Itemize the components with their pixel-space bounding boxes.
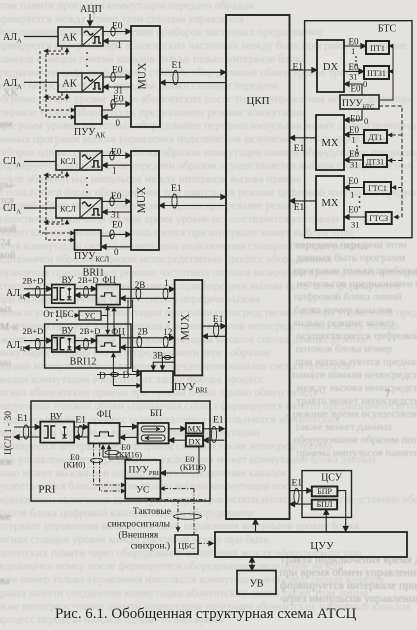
node СЛ_А 2 <box>3 203 21 216</box>
wire MUX2 to КСЛ1 <box>102 164 131 166</box>
wire ФЦ2 to MUX3 2В <box>120 336 175 347</box>
svg-text:ПТ1: ПТ1 <box>370 44 385 53</box>
tone generator ГТС3 <box>366 212 392 224</box>
svg-text:программ только приборов: программ только приборов <box>294 265 417 277</box>
svg-text:КСЛ: КСЛ <box>60 205 76 214</box>
svg-text:0: 0 <box>364 116 368 126</box>
svg-text:осуществляется цифровой приема: осуществляется цифровой приема <box>296 330 417 342</box>
svg-text:От ЦБС: От ЦБС <box>43 309 73 319</box>
svg-text:ва: ва <box>0 576 10 587</box>
wire MUX3 3В lower to ПУУ_BRI <box>153 362 174 370</box>
svg-text:3В: 3В <box>153 351 164 361</box>
wire ЦКП to MUX1 Е1 <box>160 82 226 84</box>
wire СЛ_А 2 to КСЛ2 <box>24 207 56 209</box>
wire ФЦ to ПУУ_PRI pair <box>103 445 131 460</box>
wire ЦКП to БПР Е1 <box>290 489 312 504</box>
svg-text:только режиме может: только режиме может <box>294 317 396 329</box>
svg-text:блока номер каналов: блока номер каналов <box>295 304 393 316</box>
wire БП to МХ pri <box>169 428 186 430</box>
wire От ЦБС to УС <box>74 314 79 316</box>
svg-text:31: 31 <box>349 72 358 82</box>
block BRI12 <box>45 324 131 368</box>
label Е1 pri-цкп <box>213 415 224 425</box>
svg-text:2В+D: 2В+D <box>22 276 43 286</box>
svg-text:приема импульсов памяти: приема импульсов памяти <box>296 447 417 459</box>
dashdot УС to ЦБС <box>148 499 207 532</box>
svg-text:0: 0 <box>116 118 121 128</box>
svg-text:через импульсов управления осу: через импульсов управления осуществляетс… <box>280 593 417 605</box>
label Е0 ксл row1 <box>111 148 122 158</box>
svg-text:Тактовые: Тактовые <box>133 507 171 517</box>
wire ВУ to АЛ_Ц 1 <box>24 294 52 296</box>
label Е1 MUX1 <box>172 61 183 71</box>
label синхрон <box>131 541 170 552</box>
svg-text:ВУ: ВУ <box>50 413 63 423</box>
svg-text:ВУ: ВУ <box>62 325 74 335</box>
svg-text:7: 7 <box>385 389 390 400</box>
wire ПУУ_БТС to DX <box>344 84 362 95</box>
tone generator ГТС1 <box>364 182 391 194</box>
wire ВУ to ЦСЛ <box>14 436 40 438</box>
svg-text:АК: АК <box>62 79 78 90</box>
bus mark sync <box>174 514 202 520</box>
wire ЦКП to DX Е1 <box>290 69 318 71</box>
wire ЦУУ to БПЛ <box>325 509 327 532</box>
wire МХ1 to ЦКП Е1 <box>290 137 317 139</box>
svg-text:Е0: Е0 <box>351 84 361 94</box>
svg-text:1: 1 <box>351 46 355 56</box>
svg-text:Рис. 6.1. Обобщенная структурн: Рис. 6.1. Обобщенная структурная схема А… <box>55 606 357 622</box>
wire БПР to ЦУУ <box>337 491 345 532</box>
wire ФЦ1 to MUX3 2В <box>120 288 175 299</box>
svg-text:31: 31 <box>351 220 360 230</box>
wire DX to ПТ1 <box>344 45 366 47</box>
svg-text:(КИ0): (КИ0) <box>64 460 86 470</box>
svg-text:но: но <box>0 358 11 369</box>
wire МХ pri to ЦКП Е1 <box>203 427 224 443</box>
svg-text:УС: УС <box>85 312 96 321</box>
svg-text:Е1: Е1 <box>293 63 304 73</box>
svg-text:(КИ16): (КИ16) <box>116 450 142 460</box>
svg-text:DX: DX <box>188 436 200 446</box>
svg-text:31: 31 <box>350 160 359 170</box>
svg-text:интервале управления включения: интервале управления включения быть упра… <box>0 521 359 533</box>
svg-text:Е0: Е0 <box>348 205 358 215</box>
label Е0 row3 <box>113 95 124 105</box>
label 2В+D bri1 mid <box>78 275 99 285</box>
wire ФЦ to БП <box>120 426 138 428</box>
demux DX <box>317 40 344 92</box>
svg-text:ДТ31: ДТ31 <box>366 158 384 167</box>
frame unit ФЦ bri12 <box>96 327 125 353</box>
svg-text:MUX: MUX <box>137 62 149 90</box>
svg-text:БПР: БПР <box>317 487 332 496</box>
io block УВ <box>237 571 276 595</box>
wire MUX1 to АК1 <box>103 40 131 42</box>
label 2В+D bri12 <box>22 326 43 336</box>
label Е1 мх1 <box>294 144 305 154</box>
wire ЦКП to MUX3 Е1 <box>202 335 226 337</box>
line unit ВУ bri1 <box>52 275 75 303</box>
svg-text:1: 1 <box>352 135 356 145</box>
svg-text:1: 1 <box>164 278 169 288</box>
svg-text:Е0: Е0 <box>349 62 359 72</box>
transmitter ПТ1 <box>366 41 389 54</box>
svg-text:Е1: Е1 <box>294 144 305 154</box>
block PRI frame <box>31 401 210 501</box>
svg-text:ры-: ры- <box>0 180 16 191</box>
label Внешняя <box>118 530 159 541</box>
svg-text:(КИ16): (КИ16) <box>180 462 206 472</box>
label 1 дт1 <box>352 135 356 145</box>
transmitter БПЛ <box>312 500 337 510</box>
dashdot ЦБС to УС <box>160 489 194 535</box>
label 12 bri12 <box>163 327 172 337</box>
svg-text:Е1: Е1 <box>171 184 182 194</box>
block BRI1 <box>45 266 131 308</box>
svg-text:PRI: PRI <box>38 484 55 496</box>
label Е1 цсу <box>292 479 303 489</box>
svg-text:ГТСЗ: ГТСЗ <box>369 214 388 223</box>
mux МХ2 <box>316 176 344 230</box>
svg-text:Е0: Е0 <box>112 66 123 76</box>
svg-text:Е1: Е1 <box>75 415 86 425</box>
label 0 ксл row3 <box>114 247 119 257</box>
wire АК2 to MUX1 Е0 <box>103 73 131 82</box>
label Е0 row2 <box>112 66 123 76</box>
label D right <box>123 371 130 381</box>
wire ПУУ_АК to MUX1 Е0 <box>102 100 131 111</box>
wire АЦП into АК1 <box>89 14 91 26</box>
svg-text:ЦКП: ЦКП <box>246 95 269 107</box>
wire MUX2 to КСЛ2 <box>102 211 131 213</box>
demux DX pri <box>186 436 203 447</box>
label 31 гтс3 <box>351 220 360 230</box>
svg-text:памяти памяти непосредственно: памяти памяти непосредственно <box>292 369 417 381</box>
svg-text:ЦУУ: ЦУУ <box>310 540 334 552</box>
svg-text:Е0: Е0 <box>349 125 359 135</box>
svg-text:ФЦ: ФЦ <box>102 275 116 285</box>
block ЦСУ frame <box>302 471 352 518</box>
wire D link ФЦ2 to ПУУ_BRI <box>113 353 141 386</box>
receiver БПР <box>312 487 338 497</box>
label Е1 to DX <box>293 63 304 73</box>
svg-text:цифровой блока линий: цифровой блока линий <box>294 291 401 303</box>
mux МХ1 <box>316 115 344 170</box>
line unit ВУ bri12 <box>52 325 75 352</box>
svg-text:Е1: Е1 <box>292 479 303 489</box>
svg-text:ФЦ: ФЦ <box>111 327 125 337</box>
wire УС sync to ФЦ1 and ФЦ2 <box>101 306 108 334</box>
svg-text:КСЛ: КСЛ <box>60 157 76 166</box>
label Е0 пт31 <box>349 62 359 72</box>
svg-text:коммутации потоков потоков пре: коммутации потоков потоков предназначен … <box>0 347 270 359</box>
wire БПЛ to ЦКП Е1 <box>290 503 312 505</box>
label Е0 КИ0 <box>64 452 86 470</box>
multiplexer MUX3 <box>175 280 203 375</box>
svg-text:ых: ых <box>0 304 13 315</box>
wire АЛ_А 2 to АК2 <box>24 81 58 83</box>
wire БП to ФЦ <box>120 436 138 438</box>
control unit ПУУ_АК <box>74 106 105 140</box>
node АЛ_Ц 2 <box>6 340 25 353</box>
wire MUX2 to ЦКП Е1 <box>159 194 226 208</box>
dashed control ПУУ_БТС to ДТ ГТС <box>379 106 402 217</box>
label АЦП <box>80 4 102 15</box>
wire АК1 to MUX1 Е0 <box>103 27 131 36</box>
label Е0 дт1 <box>349 125 359 135</box>
svg-text:МХ: МХ <box>322 198 339 209</box>
dashed bus КСЛ to ПУУ_КСЛ <box>40 171 75 240</box>
label Е0 ксл row2 <box>111 192 122 202</box>
svg-text:сигнал абонентских приема при: сигнал абонентских приема при приема бло… <box>0 387 318 399</box>
label 31 ксл row2 <box>111 210 120 220</box>
wire ЦКП to DX pri Е1 <box>203 439 224 441</box>
wire D channel to ПУУ_BRI <box>97 373 141 377</box>
control unit ПУУ_BRI <box>141 371 208 395</box>
power unit БП <box>138 409 169 443</box>
label 0 дх <box>363 79 367 89</box>
codec КСЛ2 <box>56 198 102 218</box>
wire ЦУУ to УВ <box>251 557 253 571</box>
label 1 bri1 <box>164 278 169 288</box>
dashdot ФЦ to УС КИ0 <box>91 444 126 491</box>
svg-text:МХ: МХ <box>322 138 339 149</box>
svg-text:БП: БП <box>150 409 162 419</box>
frame unit ФЦ pri <box>88 410 119 443</box>
svg-text:0: 0 <box>114 247 119 257</box>
wire АЛ_Ц 1 to ВУ <box>24 286 52 297</box>
svg-text:2В+D: 2В+D <box>78 275 99 285</box>
svg-text:этом памяти программ коммутаци: этом памяти программ коммутации передачи… <box>0 0 254 12</box>
svg-text:MUX: MUX <box>180 313 192 341</box>
wire ГТС3 to МХ2 <box>344 216 365 218</box>
wire ФЦ to ВУ pri <box>74 436 88 438</box>
svg-text:0: 0 <box>363 79 367 89</box>
node СЛ_А 1 <box>3 156 21 169</box>
svg-text:Е0: Е0 <box>349 149 359 159</box>
label 2В+D bri12 mid <box>80 326 101 336</box>
svg-text:2В: 2В <box>137 327 148 337</box>
svg-text:Е0: Е0 <box>112 221 123 231</box>
svg-text:12: 12 <box>163 327 172 337</box>
wire ВУ to ФЦ pri <box>74 426 88 437</box>
node АЛ_А 1 <box>3 32 22 45</box>
wire D drop from BRI1 <box>128 300 141 375</box>
svg-text:УВ: УВ <box>250 579 264 590</box>
svg-text:предназначен образом образом н: предназначен образом образом непосредств… <box>0 254 333 266</box>
label От ЦБС <box>43 309 73 319</box>
svg-text:синхрон.): синхрон.) <box>131 541 170 552</box>
svg-text:Е1: Е1 <box>172 61 183 71</box>
wire ПУУ_КСЛ to MUX2 Е0 <box>101 230 131 239</box>
svg-text:Е0: Е0 <box>112 22 123 32</box>
frame unit ФЦ bri1 <box>96 275 120 305</box>
wire ФЦ to ВУ bri12 <box>75 347 97 349</box>
wire D link ФЦ1 pair <box>113 307 115 334</box>
dots пт <box>355 56 357 66</box>
wire ДТ31 to МХ1 <box>344 159 363 161</box>
svg-text:ЦСУ: ЦСУ <box>321 473 343 484</box>
receiver ДТ1 <box>364 130 387 143</box>
svg-text:Е1: Е1 <box>17 414 28 424</box>
node АЛ_Ц 1 <box>6 288 25 301</box>
wire DX to ПТ31 <box>344 70 364 72</box>
svg-text:цифровой обмен между абонентск: цифровой обмен между абонентских однако … <box>0 200 302 212</box>
wire ДТ1 to МХ1 <box>344 134 364 136</box>
label 31 row2 <box>114 86 123 96</box>
svg-text:Е0: Е0 <box>348 176 358 186</box>
label Е1 ву-фц <box>75 415 86 425</box>
control unit ПУУ_PRI <box>125 460 160 479</box>
wire ВУ to ФЦ bri1 <box>75 286 97 297</box>
label 0 мх1 <box>364 116 368 126</box>
wire ЦСЛ to ВУ <box>14 425 40 439</box>
svg-text:между вызова непосредственно: между вызова непосредственно <box>297 382 417 394</box>
label 0 row3 <box>116 118 121 128</box>
svg-text:передачи передачи этом: передачи передачи этом <box>295 239 407 251</box>
svg-text:АЦП: АЦП <box>80 4 102 15</box>
switch ЦКП <box>226 15 290 519</box>
svg-text:АК: АК <box>62 33 78 44</box>
wire КСЛ1 to MUX2 Е0 <box>102 151 131 160</box>
svg-text:Е1: Е1 <box>294 203 305 213</box>
svg-text:тракта подключения время данны: тракта подключения время данных <box>280 554 417 566</box>
svg-text:Е0: Е0 <box>350 114 360 124</box>
svg-text:ме: ме <box>0 512 12 523</box>
dots bri rows <box>56 307 170 323</box>
svg-text:импульсов предназначен быть: импульсов предназначен быть <box>297 278 417 290</box>
label Е1 мх2 <box>294 203 305 213</box>
svg-text:Е1: Е1 <box>213 415 224 425</box>
control unit ПУУ_КСЛ <box>74 230 109 264</box>
label Е0 КИ16 right <box>180 454 206 472</box>
svg-text:(Внешняя: (Внешняя <box>118 530 159 541</box>
svg-text:УС: УС <box>136 486 149 496</box>
label Е0 row1 <box>112 22 123 32</box>
svg-text:также может данных: также может данных <box>295 421 393 433</box>
label Е1 MUX2 <box>171 184 182 194</box>
svg-text:тракта может непосредственно: тракта может непосредственно <box>296 395 417 407</box>
label Е0 дх <box>351 84 361 94</box>
svg-text:ПТ31: ПТ31 <box>367 69 386 78</box>
label 3В <box>153 351 164 361</box>
label Е1 цсл <box>17 414 28 424</box>
mux МХ pri <box>186 423 203 433</box>
wire ЦКП to MUX2 Е1 <box>159 205 226 207</box>
wire ФЦ to ВУ bri1 <box>75 294 97 296</box>
control unit ПУУ_БТС <box>340 95 379 111</box>
wire MUX1 to ПУУ_АК <box>102 116 131 118</box>
wire MUX1 to ЦКП Е1 <box>160 71 226 85</box>
transmitter ПТ31 <box>364 66 389 79</box>
line unit ВУ pri <box>40 413 74 443</box>
codec АК1 <box>58 27 103 46</box>
svg-text:BRI12: BRI12 <box>70 357 97 368</box>
multiplexer MUX1 <box>131 26 160 127</box>
dots гтс <box>359 196 361 208</box>
svg-text:MUX: MUX <box>136 186 148 214</box>
wire MUX2 to ПУУ_КСЛ <box>101 246 131 248</box>
codec КСЛ1 <box>56 151 102 170</box>
label 31 пт31 <box>349 72 358 82</box>
node ЦСЛ 1-30 <box>4 411 14 455</box>
dashdot ЦБС to ЦУУ <box>198 542 214 544</box>
sync unit УС pri <box>125 479 160 499</box>
wire МХ2 to ЦКП Е1 <box>290 200 317 202</box>
wire DX pri to ПУУ_PRI <box>160 446 199 473</box>
label 1 row1 <box>117 40 122 50</box>
svg-text:Е0: Е0 <box>113 95 124 105</box>
svg-text:станции коммутации абонентских: станции коммутации абонентских также выб… <box>0 374 264 386</box>
label 31 дт31 <box>350 160 359 170</box>
multiplexer MUX2 <box>131 151 159 250</box>
svg-text:2В+D: 2В+D <box>22 326 43 336</box>
wire DX pri to БП <box>169 439 186 441</box>
wire MUX3 3В upper to ПУУ_BRI <box>162 355 174 370</box>
svg-text:ЦСЛ 1 - 30: ЦСЛ 1 - 30 <box>4 411 14 455</box>
svg-text:оборудование образом потоков: оборудование образом потоков <box>294 434 417 446</box>
label Е1 MUX3 <box>213 315 224 325</box>
svg-text:Е0: Е0 <box>349 37 359 47</box>
svg-text:1: 1 <box>350 190 354 200</box>
label Е0 дт31 <box>349 149 359 159</box>
svg-text:ной: ной <box>0 224 17 235</box>
svg-text:ГТС1: ГТС1 <box>368 184 387 193</box>
label Е0 гтс3 <box>348 205 358 215</box>
svg-text:2В+D: 2В+D <box>80 326 101 336</box>
svg-text:М-к: М-к <box>0 322 19 333</box>
wire ВУ to ФЦ bri12 <box>75 339 97 350</box>
dots between КСЛ1 and КСЛ2 <box>86 177 88 193</box>
svg-text:им: им <box>0 119 13 130</box>
svg-text:данных быть программ: данных быть программ <box>296 252 405 264</box>
label Е0 гтс1 <box>348 176 358 186</box>
svg-text:кж: кж <box>0 457 13 468</box>
svg-text:потоков блока номер: потоков блока номер <box>295 343 393 355</box>
svg-text:D: D <box>99 372 106 382</box>
svg-text:ВУ: ВУ <box>62 275 74 285</box>
wire АЛ_Ц 2 to ВУ <box>24 339 52 350</box>
svg-text:1: 1 <box>112 166 117 176</box>
wire КСЛ2 to MUX2 Е0 <box>102 197 131 206</box>
svg-text:формируется интервале приборов: формируется интервале приборов может <box>280 580 417 592</box>
svg-text:образом блока цифровой каналов: образом блока цифровой каналов памяти об… <box>0 507 255 519</box>
label 1 ксл row1 <box>112 166 117 176</box>
label Е0 КИ16 left <box>116 442 142 460</box>
label 2В+D bri1 <box>22 276 43 286</box>
control ЦУУ <box>215 532 407 557</box>
receiver ДТ31 <box>363 155 387 167</box>
svg-text:ФЦ: ФЦ <box>97 410 112 420</box>
svg-text:синхросигналы: синхросигналы <box>107 520 170 530</box>
label синхросигналы <box>107 520 170 530</box>
svg-text:74: 74 <box>0 238 11 249</box>
label 1 гтс1 <box>350 190 354 200</box>
clock block ЦБС <box>175 535 198 554</box>
svg-text:предназначен включения время т: предназначен включения время тракта приб… <box>0 494 417 506</box>
label 2В bri1 <box>135 280 146 290</box>
svg-text:БПЛ: БПЛ <box>317 500 333 509</box>
dots between АК1 and АК2 <box>86 52 88 67</box>
wire ПУУ_БТС to МХ1 <box>344 109 362 120</box>
svg-text:режиме время осуществляется: режиме время осуществляется <box>293 408 417 420</box>
svg-text:МХ: МХ <box>188 423 202 433</box>
wire MUX3 to ФЦ1 <box>120 297 175 299</box>
dashed bus АК to ПУУ_АК <box>40 47 75 117</box>
svg-text:DX: DX <box>323 62 339 73</box>
label Е0 мх1 0 <box>350 114 360 124</box>
